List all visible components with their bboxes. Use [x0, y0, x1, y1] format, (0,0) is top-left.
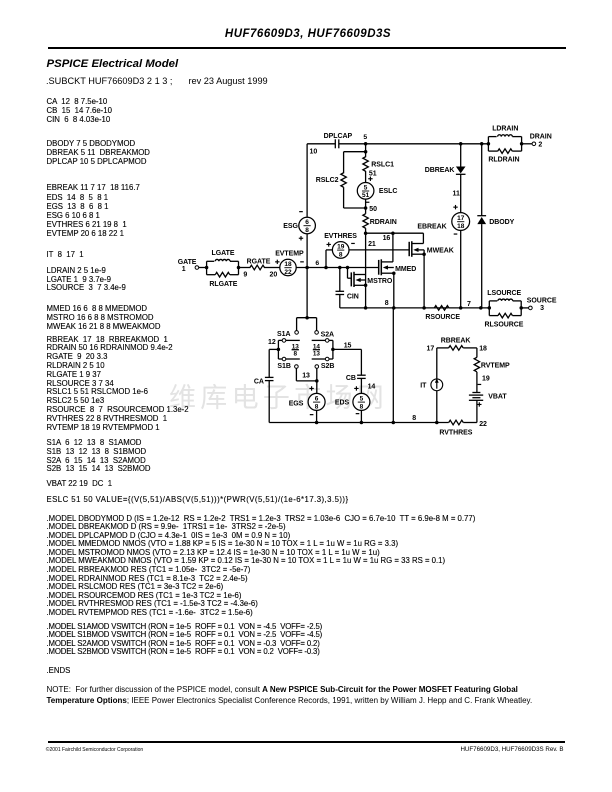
wire node-5 top rail: [307, 143, 532, 145]
footer right: [400, 746, 564, 753]
junction LDRAIN left: [487, 142, 491, 146]
battery VBAT: [469, 393, 508, 401]
svg-text:S2A: S2A: [321, 331, 334, 338]
wire RSLC2 branch bottom: [344, 187, 366, 208]
svg-text:13: 13: [313, 351, 321, 358]
control label S2A 14/13: [313, 344, 321, 358]
switch S2B: [312, 357, 335, 370]
wire node 50 to RDRAIN: [365, 199, 367, 214]
resistor RVTEMP: [474, 357, 510, 372]
transistor MMED: [379, 259, 417, 275]
inductor LSOURCE: [487, 290, 521, 315]
svg-text:3: 3: [540, 305, 544, 312]
node 20: [270, 272, 278, 279]
wire S2B to node 13: [316, 368, 318, 381]
netlist group E: [47, 183, 140, 238]
svg-text:RDRAIN: RDRAIN: [370, 219, 397, 226]
svg-text:21: 21: [368, 241, 376, 248]
terminal SOURCE node 3: [521, 298, 557, 313]
resistor RSLC2: [316, 173, 347, 187]
wire IT to RBREAK: [437, 348, 449, 379]
svg-text:EBREAK: EBREAK: [417, 224, 446, 231]
junction LGATE left: [205, 266, 209, 270]
svg-text:RVTEMP: RVTEMP: [481, 363, 510, 370]
svg-text:19: 19: [482, 376, 490, 383]
wire EGS to bottom rail: [315, 410, 319, 424]
svg-text:9: 9: [243, 272, 247, 279]
node 11: [453, 190, 460, 197]
netlist group S: [47, 439, 151, 474]
wire VBAT to node 22: [476, 400, 478, 422]
wire node 8 rail: [340, 306, 449, 310]
sign VBAT plus: [477, 402, 481, 406]
current source IT: [420, 378, 442, 391]
wire top rail to DBREAK: [459, 142, 463, 167]
wire DBREAK to EBREAK: [460, 174, 462, 212]
svg-text:2: 2: [538, 141, 542, 148]
resistor RLGATE: [207, 272, 239, 288]
resistor RDRAIN: [363, 214, 397, 228]
junction LSOURCE right: [519, 306, 523, 310]
transistor MSTRO: [351, 272, 393, 287]
netlist group R: [47, 336, 189, 433]
netlist group M: [47, 305, 161, 332]
wire RGATE to EVTEMP: [264, 267, 280, 269]
wire RSLC2 branch top: [344, 150, 368, 173]
wire node 16 drop through MSTRO: [365, 233, 367, 308]
note: [47, 685, 537, 706]
header rule: [48, 47, 566, 49]
wire node 6 down to switches: [297, 268, 317, 331]
switch S1B: [277, 357, 299, 370]
svg-text:5: 5: [364, 184, 368, 191]
resistor RBREAK: [441, 337, 471, 350]
capacitor CIN: [336, 291, 359, 300]
node 21: [368, 241, 376, 248]
watermark: [169, 376, 388, 415]
svg-text:ESLC: ESLC: [379, 188, 397, 195]
svg-text:EVTHRES: EVTHRES: [324, 233, 357, 240]
svg-text:LSOURCE: LSOURCE: [487, 290, 521, 297]
svg-text:5: 5: [360, 396, 364, 403]
node 13: [302, 372, 318, 382]
wire DBODY to node 7: [481, 224, 483, 308]
svg-text:8: 8: [385, 300, 389, 307]
vcvs ESLC: [357, 177, 397, 203]
svg-text:8: 8: [339, 251, 343, 258]
resistor RGATE: [247, 259, 271, 270]
svg-text:17: 17: [427, 346, 435, 353]
bottom rail: [269, 422, 449, 424]
node 50: [364, 206, 377, 213]
svg-text:EDS: EDS: [335, 400, 350, 407]
node 8 upper: [385, 300, 389, 307]
svg-text:DPLCAP: DPLCAP: [324, 133, 353, 140]
svg-text:EVTEMP: EVTEMP: [275, 251, 304, 258]
junction LDRAIN right: [520, 142, 524, 146]
svg-text:19: 19: [337, 244, 345, 251]
svg-text:RBREAK: RBREAK: [441, 337, 471, 344]
svg-text:RLSOURCE: RLSOURCE: [485, 322, 524, 329]
wire CIN to node 8: [339, 295, 341, 308]
resistor RVTHRES: [439, 420, 477, 436]
wire top rail to DBODY: [480, 142, 484, 216]
wire RVTHRES leads: [448, 422, 450, 424]
svg-text:MMED: MMED: [395, 266, 416, 273]
switch S2A: [312, 331, 334, 343]
svg-text:22: 22: [479, 421, 487, 428]
svg-text:MWEAK: MWEAK: [427, 247, 454, 254]
svg-text:DRAIN: DRAIN: [530, 133, 552, 140]
wire MSTRO gate lead: [348, 268, 352, 279]
svg-text:11: 11: [453, 190, 460, 197]
node 5: [363, 134, 367, 145]
wire node 10 vertical: [306, 144, 308, 217]
wire GATE to LGATE: [199, 267, 207, 269]
wire node 13 to EGS: [316, 381, 318, 394]
node 16: [383, 235, 391, 242]
model group 2: [47, 623, 323, 657]
svg-text:ESG: ESG: [283, 223, 298, 230]
resistor RLDRAIN: [488, 149, 521, 164]
vcvs EGS: [289, 386, 325, 414]
node 10: [310, 148, 318, 155]
svg-text:20: 20: [270, 272, 278, 279]
node 6: [315, 260, 319, 267]
svg-text:7: 7: [467, 301, 471, 308]
node 51: [369, 171, 377, 178]
node 18: [479, 346, 487, 353]
node 17: [427, 346, 435, 353]
vcvs EBREAK: [417, 213, 469, 234]
wire node 12 to CA: [269, 349, 278, 377]
svg-text:CA: CA: [254, 378, 264, 385]
wire RSOURCE to LSOURCE: [449, 306, 489, 310]
svg-text:RLGATE: RLGATE: [209, 281, 237, 288]
vcvs EVTHRES: [324, 233, 357, 258]
svg-text:RGATE: RGATE: [247, 259, 271, 266]
node 15 bracket: [329, 340, 352, 359]
svg-text:LGATE: LGATE: [212, 250, 235, 257]
node 8 lower: [412, 415, 416, 422]
wire S1B to node 13: [296, 368, 316, 381]
svg-text:CIN: CIN: [347, 293, 359, 300]
svg-text:GATE: GATE: [178, 259, 197, 266]
wire node 8 drop: [392, 308, 396, 424]
sign VBAT minus: [478, 383, 482, 385]
wire EVTHRES left leg: [324, 250, 332, 269]
svg-text:SOURCE: SOURCE: [527, 298, 557, 305]
svg-text:1: 1: [182, 266, 186, 273]
wire EBREAK to node 7: [460, 230, 462, 308]
svg-text:RSLC2: RSLC2: [316, 177, 339, 184]
junction LGATE right: [237, 266, 241, 270]
node 7: [467, 301, 471, 308]
netlist IT: [47, 251, 84, 260]
diode DBODY: [477, 216, 514, 226]
wire CA to bottom rail: [268, 381, 270, 423]
svg-text:RLDRAIN: RLDRAIN: [488, 156, 519, 163]
ends: [47, 667, 71, 676]
subckt line: [46, 76, 268, 86]
svg-text:8: 8: [293, 351, 297, 358]
wire node 6 to CIN: [339, 268, 341, 292]
svg-text:18: 18: [479, 346, 487, 353]
switch S1A: [277, 331, 300, 343]
svg-text:6: 6: [305, 219, 309, 226]
svg-text:LDRAIN: LDRAIN: [492, 125, 518, 132]
svg-text:S2B: S2B: [321, 363, 334, 370]
svg-text:8: 8: [305, 227, 309, 234]
svg-text:DBREAK: DBREAK: [425, 167, 455, 174]
svg-text:6: 6: [315, 260, 319, 267]
control label S1A 13/8: [292, 344, 300, 358]
wire MMED source to node 8: [393, 273, 395, 308]
node 12 bracket: [268, 339, 282, 359]
svg-text:S1B: S1B: [277, 363, 290, 370]
svg-text:8: 8: [315, 403, 319, 410]
svg-text:12: 12: [268, 339, 276, 346]
svg-text:RSLC1: RSLC1: [371, 162, 394, 169]
svg-text:RVTHRES: RVTHRES: [439, 430, 472, 437]
wire ESG to node 6: [306, 234, 308, 268]
section heading: [47, 58, 179, 70]
svg-text:16: 16: [383, 235, 391, 242]
svg-text:22: 22: [284, 269, 292, 276]
svg-text:DBODY: DBODY: [489, 219, 514, 226]
node 9: [243, 272, 247, 279]
vcvs EDS: [335, 386, 370, 413]
wire RDRAIN to node 16: [365, 228, 367, 233]
vcvs ESG: [283, 212, 315, 241]
capacitor CB: [346, 375, 366, 382]
wire MWEAK drain to node 16: [422, 233, 424, 243]
svg-text:EGS: EGS: [289, 400, 304, 407]
capacitor DPLCAP: [324, 133, 353, 148]
netlist group D: [47, 140, 150, 167]
footer left: [46, 747, 143, 753]
netlist group C/L/CIN: [47, 98, 112, 125]
node 19: [482, 376, 490, 383]
svg-text:MSTRO: MSTRO: [367, 278, 393, 285]
svg-text:51: 51: [362, 192, 370, 199]
capacitor CA: [254, 377, 274, 385]
vcvs EVTEMP: [275, 251, 304, 276]
svg-text:13: 13: [302, 372, 310, 379]
wire node 21 EVTHRES to MWEAK gate: [349, 249, 409, 251]
wire LGATE to RGATE: [239, 267, 251, 269]
inductor LDRAIN: [488, 125, 521, 151]
svg-text:RSOURCE: RSOURCE: [425, 314, 460, 321]
svg-text:6: 6: [315, 396, 319, 403]
wire RBREAK to RVTEMP: [463, 348, 477, 358]
title: [2, 28, 612, 40]
wire EDS to bottom rail: [360, 410, 364, 424]
svg-text:CB: CB: [346, 375, 356, 382]
wire node 15 to CB: [333, 349, 362, 375]
sign EBREAK plus: [453, 205, 457, 209]
svg-text:VBAT: VBAT: [488, 394, 507, 401]
svg-text:10: 10: [310, 148, 318, 155]
wire MWEAK source to node 8: [423, 250, 425, 308]
transistor MWEAK: [409, 241, 454, 257]
inductor LGATE: [207, 250, 239, 275]
node 14: [368, 383, 376, 390]
diode DBREAK: [425, 167, 466, 175]
svg-text:17: 17: [457, 215, 465, 222]
svg-text:5: 5: [363, 134, 367, 141]
resistor RSLC1: [363, 157, 394, 171]
netlist ESLC: [47, 496, 349, 505]
terminal GATE node 1: [178, 259, 199, 273]
svg-text:IT: IT: [420, 383, 427, 390]
netlist VBAT: [47, 480, 113, 489]
svg-text:50: 50: [369, 206, 377, 213]
wire IT branch: [435, 391, 439, 425]
svg-text:S1A: S1A: [277, 331, 290, 338]
wire node 16 rail: [364, 231, 424, 235]
resistor RLSOURCE: [485, 313, 524, 328]
svg-text:15: 15: [344, 342, 352, 349]
wire RVTEMP to VBAT: [476, 372, 478, 393]
model group 1: [47, 515, 476, 617]
svg-text:8: 8: [360, 403, 364, 410]
terminal DRAIN node 2: [530, 133, 552, 148]
svg-text:14: 14: [368, 383, 376, 390]
resistor RSOURCE: [425, 306, 460, 322]
wire RSLC1 to ESLC: [365, 171, 367, 183]
netlist group L: [47, 267, 126, 294]
wire node 6 rail: [296, 266, 379, 270]
wire node 5 to RSLC1: [365, 144, 367, 157]
svg-text:18: 18: [284, 261, 292, 268]
wire MMED drain to node 16: [392, 233, 394, 262]
wire CB to EDS: [360, 378, 362, 393]
junction LSOURCE left: [488, 306, 492, 310]
svg-text:18: 18: [457, 223, 465, 230]
node 22: [479, 421, 487, 428]
svg-text:8: 8: [412, 415, 416, 422]
footer rule: [48, 741, 566, 743]
